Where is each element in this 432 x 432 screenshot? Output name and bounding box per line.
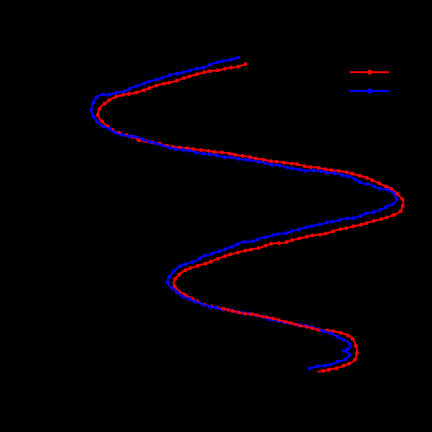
blue data line bbox=[91, 58, 397, 369]
legend blue marker bbox=[367, 88, 372, 93]
red data line bbox=[98, 64, 404, 372]
legend blue sample line bbox=[350, 90, 389, 92]
red data markers bbox=[96, 62, 405, 373]
legend red sample line bbox=[350, 71, 389, 73]
legend red marker bbox=[367, 70, 372, 75]
blue data markers bbox=[89, 56, 398, 371]
red marker overlay where red crosses above blue (bottom overlap) bbox=[223, 309, 320, 330]
